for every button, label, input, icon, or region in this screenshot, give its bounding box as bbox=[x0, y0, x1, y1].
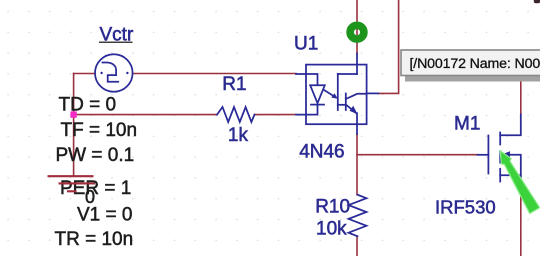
svg-text:PER = 1: PER = 1 bbox=[60, 178, 131, 199]
svg-text:U1: U1 bbox=[294, 33, 318, 54]
svg-text:10k: 10k bbox=[316, 219, 347, 240]
svg-text:TF = 10n: TF = 10n bbox=[61, 120, 138, 141]
svg-text:PW = 0.1: PW = 0.1 bbox=[56, 145, 135, 166]
svg-text:R10: R10 bbox=[315, 196, 350, 217]
svg-text:4N46: 4N46 bbox=[299, 141, 344, 162]
svg-text:TR = 10n: TR = 10n bbox=[55, 229, 134, 250]
svg-text:IRF530: IRF530 bbox=[435, 196, 496, 217]
svg-text:[/N00172 Name: N00: [/N00172 Name: N00 bbox=[410, 56, 540, 72]
svg-text:0: 0 bbox=[85, 187, 95, 207]
svg-text:TD = 0: TD = 0 bbox=[59, 95, 117, 116]
svg-text:R1: R1 bbox=[222, 74, 246, 95]
svg-text:V1 = 0: V1 = 0 bbox=[77, 204, 132, 225]
svg-text:1k: 1k bbox=[228, 125, 249, 146]
svg-text:M1: M1 bbox=[454, 114, 480, 135]
